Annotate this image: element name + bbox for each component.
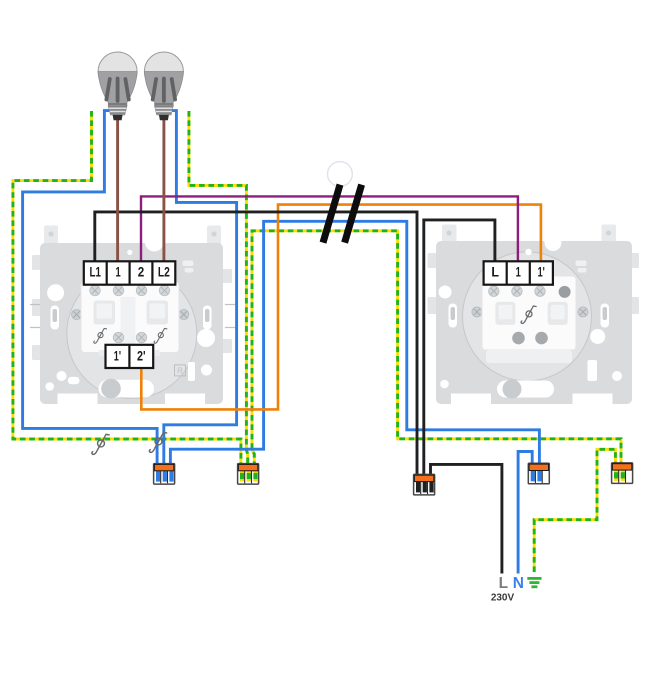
wire connector X3 (3x black) [414, 474, 435, 495]
cable break slash 2 [345, 185, 362, 243]
wire connector X2 (3x yellow-green) [238, 464, 259, 485]
wire L live (black) supply to connector X3 [431, 464, 502, 573]
wire N neutral (blue) connector X1 to connector X4 via cable [170, 221, 539, 467]
wire switched (purple) S1 terminal 2 to S2 terminal 1 [141, 196, 518, 262]
wire PE ground (yellow-green) bulb2 to connector X2 [189, 111, 248, 467]
lamp E1 (left LED bulb) [98, 52, 137, 120]
svg-text:1': 1' [114, 348, 121, 363]
cable slack symbol on N wire (bottom left) [149, 432, 167, 452]
switch symbol on S2 rocker [521, 306, 537, 324]
terminal label box S1 top: L1 1 2 L2 [84, 261, 176, 284]
wire L live (black) S1 terminal L1 to connector X3 [95, 212, 417, 478]
svg-text:1': 1' [538, 265, 545, 280]
svg-text:2': 2' [137, 348, 146, 363]
svg-text:1: 1 [516, 265, 522, 280]
wire connector X5 (2x yellow-green, supply PE) [612, 463, 633, 484]
wire N neutral (blue) bulb1 to connector X1 [23, 111, 158, 467]
wire connector X4 (2x blue, supply N) [528, 463, 549, 484]
cable break slash 1 [323, 185, 340, 243]
wire PE ground (yellow-green) supply earth to connector X5 [534, 449, 615, 572]
wire PE ground (yellow-green) connector X2 to connector X5 via cable [252, 231, 621, 467]
svg-text:L1: L1 [90, 265, 102, 280]
switch S2 mechanism (right, two-way single) [482, 276, 576, 350]
svg-text:L2: L2 [158, 265, 170, 280]
wire PE ground (yellow-green) bulb1 to connector X2 [13, 111, 621, 574]
switch symbol on S1 left rocker [94, 328, 107, 343]
wire N neutral (blue) supply to connector X4 [518, 452, 532, 574]
cable slack symbol on PE wire (bottom left) [92, 434, 110, 454]
wire switched live (brown) bulb2 to S1 terminal L2 [162, 112, 165, 262]
svg-text:L: L [491, 265, 499, 280]
switch S1 mechanism (left, two-way double) [81, 282, 179, 353]
switch S1 mounting frame (left) [30, 226, 235, 406]
switch symbol on S1 right rocker [154, 328, 167, 343]
wire switched (orange) S1 terminal 2' to S2 terminal 1' [141, 205, 541, 410]
terminal label box S1 bottom: 1' 2' [106, 345, 154, 368]
wire L live (black) connector X3 to S2 terminal L [424, 220, 495, 478]
svg-text:2: 2 [138, 265, 145, 280]
svg-text:R: R [177, 367, 183, 376]
wire switched live (brown) bulb1 to S1 terminal 1 [116, 112, 119, 262]
wire connector X1 (3x blue) [154, 464, 175, 485]
wire N neutral (blue) bulb2 to connector X1 [164, 111, 237, 467]
terminal label box S2 top: L 1 1' [484, 261, 553, 284]
svg-text:N: N [513, 575, 524, 592]
svg-text:L: L [499, 575, 508, 592]
svg-text:230V: 230V [491, 593, 515, 604]
lamp E2 (right LED bulb) [144, 52, 183, 120]
switch S2 mounting frame (right) [428, 225, 640, 406]
svg-text:1: 1 [116, 265, 122, 280]
supply earth symbol [527, 577, 541, 588]
junction circle above cable break [328, 162, 353, 187]
